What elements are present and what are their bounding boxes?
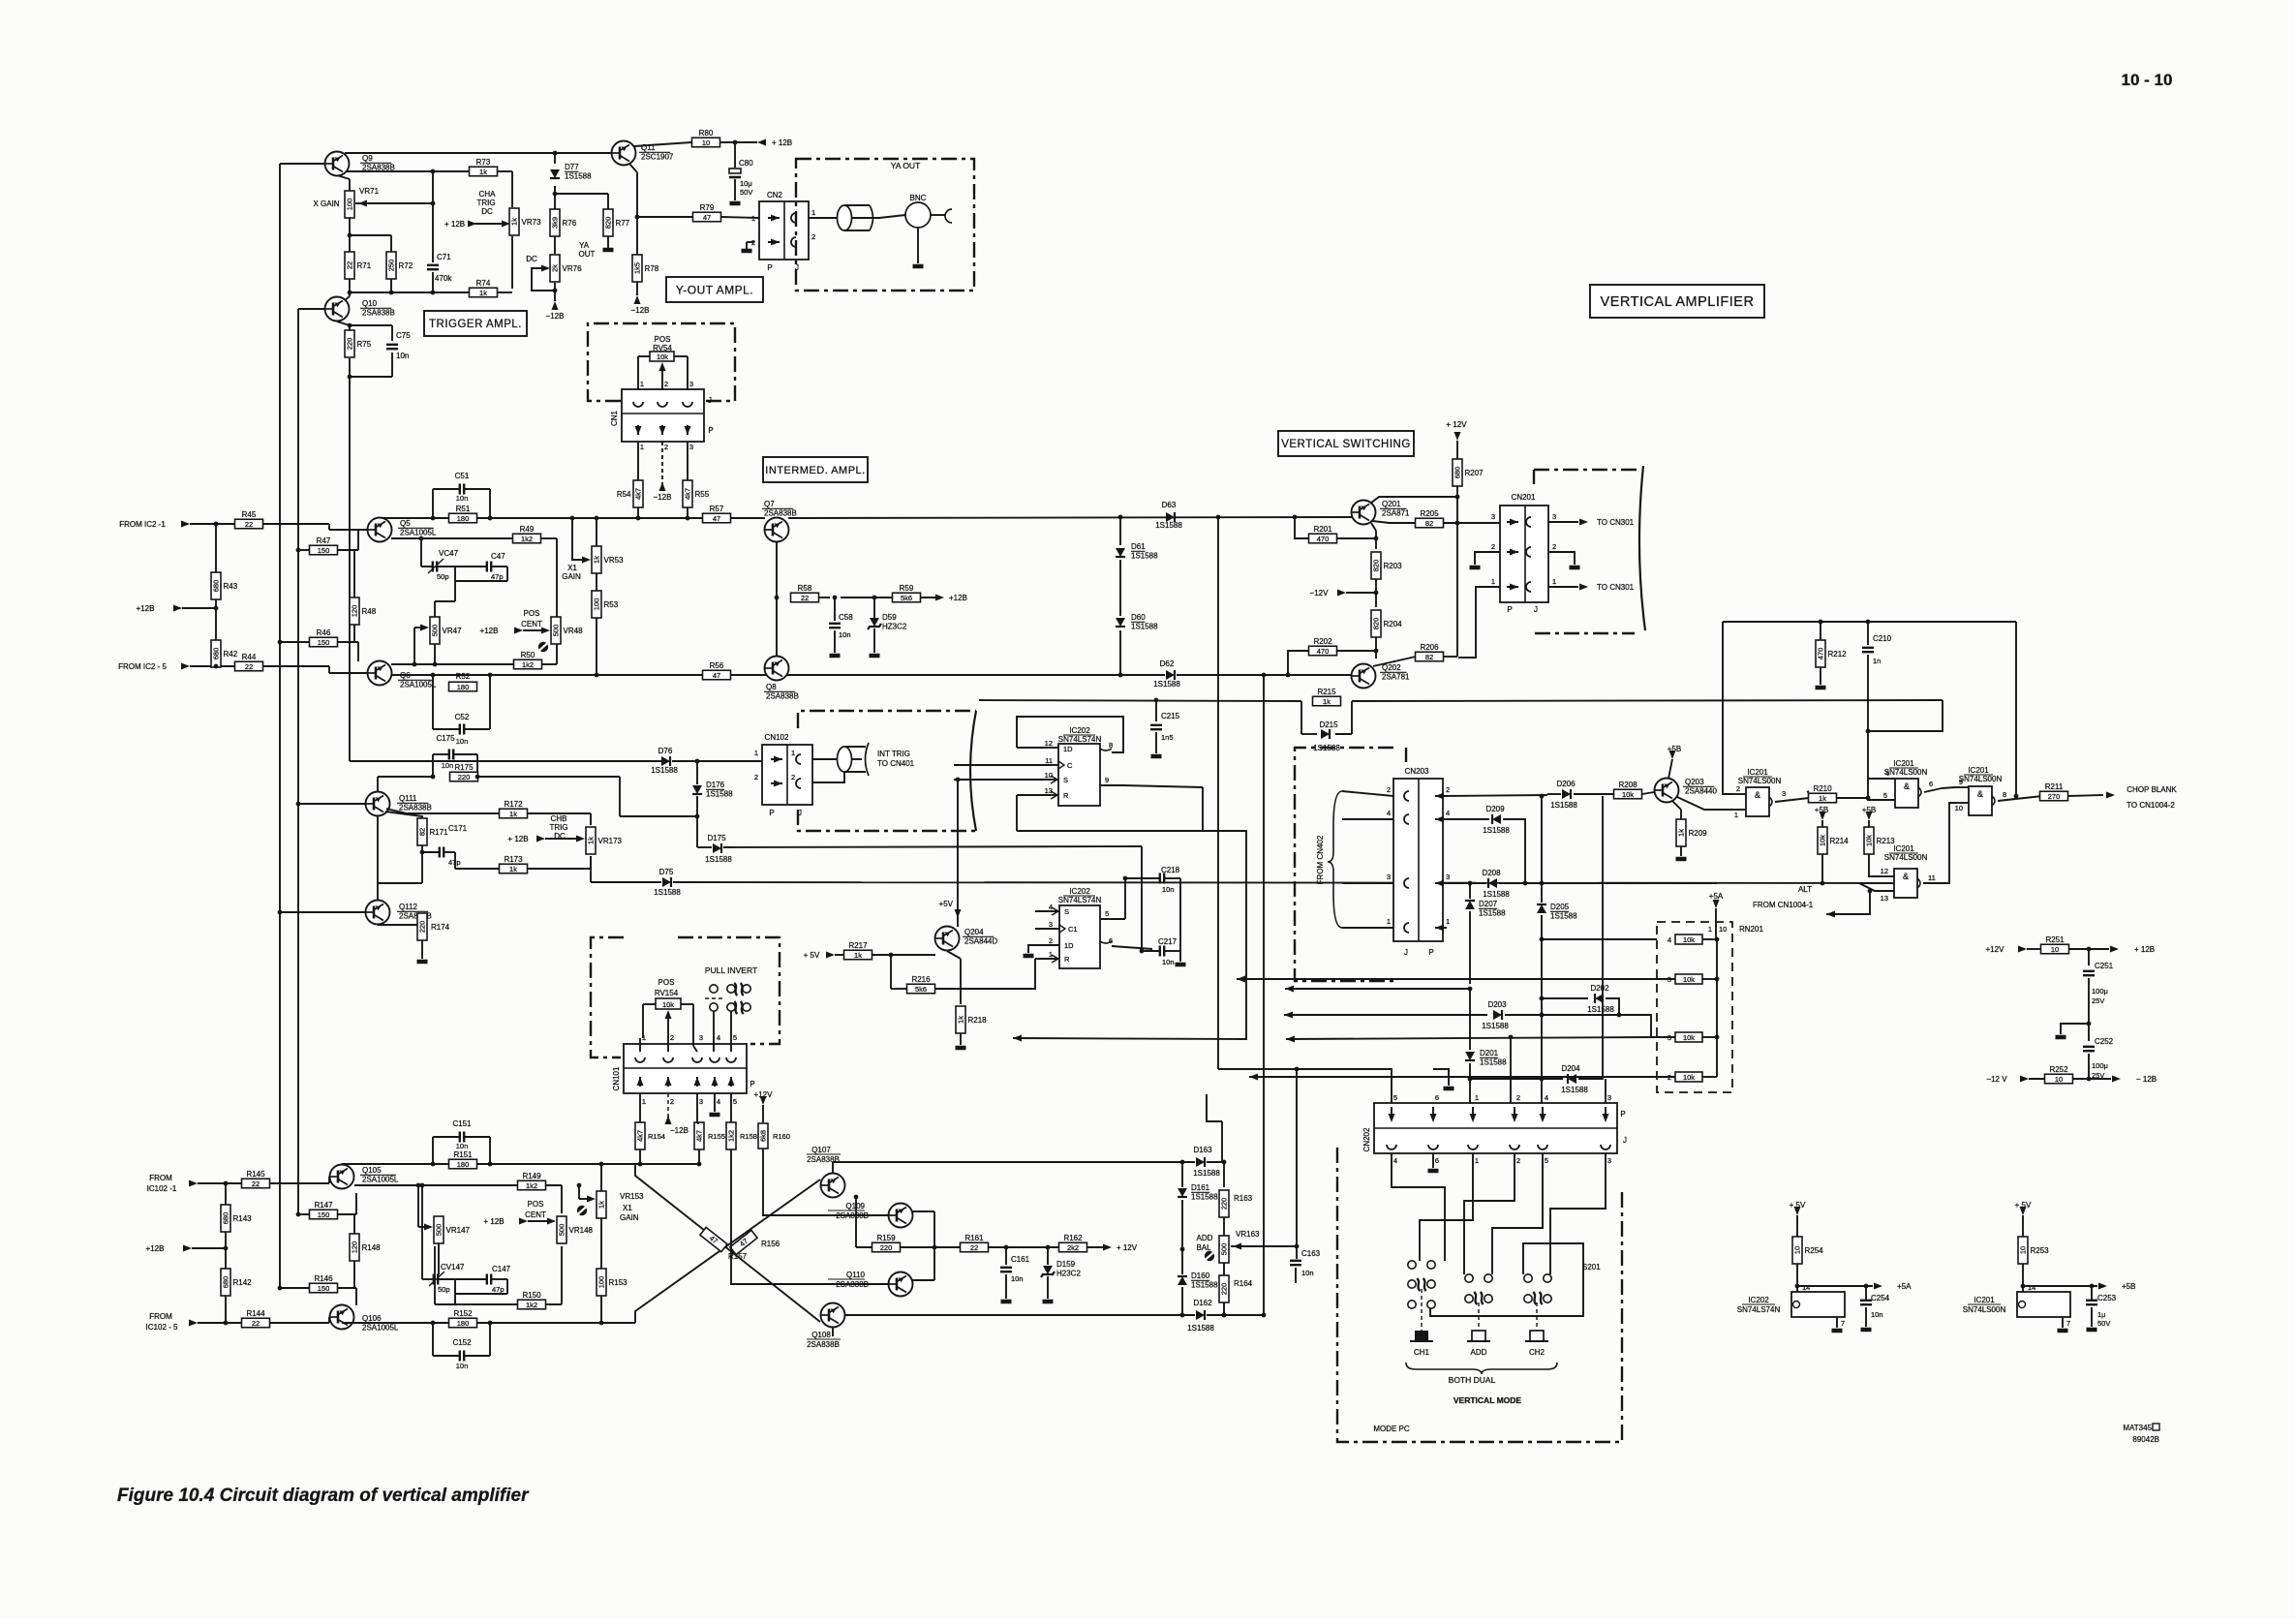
- svg-text:3k9: 3k9: [551, 217, 560, 229]
- wire R73 right to VR73: [497, 171, 512, 207]
- svg-text:82: 82: [1425, 653, 1433, 661]
- wire loop left down: [1723, 622, 1732, 794]
- svg-text:R153: R153: [609, 1278, 628, 1287]
- svg-text:C80: C80: [739, 159, 753, 168]
- label DC: [526, 255, 537, 263]
- svg-text:C254: C254: [1871, 1294, 1890, 1302]
- svg-text:C171: C171: [448, 824, 468, 833]
- svg-text:1S1588: 1S1588: [1153, 680, 1180, 689]
- resistor R142: [221, 1269, 252, 1296]
- resistor R154b: [635, 1122, 665, 1149]
- vertical CHA trig to D76: [349, 377, 351, 761]
- svg-text:22: 22: [252, 1319, 260, 1328]
- svg-text:10k: 10k: [1819, 835, 1827, 846]
- svg-text:1S1588: 1S1588: [654, 888, 681, 897]
- diode D209: [1443, 805, 1525, 883]
- dashed box YA OUT: [796, 159, 974, 291]
- capacitor C80: [729, 142, 753, 203]
- svg-text:VERTICAL MODE: VERTICAL MODE: [1453, 1395, 1522, 1405]
- svg-text:10k: 10k: [1865, 835, 1874, 846]
- pot RV154: [643, 978, 693, 1038]
- svg-text:89042B: 89042B: [2132, 1435, 2159, 1444]
- svg-text:R162: R162: [1063, 1234, 1083, 1242]
- label INT TRIG: [877, 750, 915, 768]
- svg-text:10: 10: [1955, 804, 1963, 812]
- svg-text:VR163: VR163: [1236, 1230, 1260, 1239]
- svg-text:2SA838B: 2SA838B: [764, 509, 797, 518]
- svg-text:R207: R207: [1465, 469, 1484, 477]
- resistor R216: [907, 975, 935, 994]
- wire Q9 base left: [280, 163, 325, 165]
- svg-text:FROM CN402: FROM CN402: [1316, 835, 1325, 884]
- RN201 r2: [1657, 1072, 1717, 1082]
- svg-text:R164: R164: [1234, 1279, 1253, 1288]
- vertical bus B (Q10 base down): [297, 309, 299, 1214]
- svg-text:10: 10: [1045, 771, 1053, 780]
- svg-text:CN201: CN201: [1512, 493, 1536, 502]
- svg-text:2SA838B: 2SA838B: [362, 164, 395, 172]
- resistor R144: [242, 1309, 270, 1328]
- wire D76 to CN102: [672, 760, 762, 762]
- svg-text:1k2: 1k2: [521, 535, 533, 543]
- resistor R162: [1059, 1234, 1087, 1252]
- svg-text:25V: 25V: [2092, 996, 2104, 1005]
- resistor R218: [956, 1006, 987, 1033]
- svg-text:D59: D59: [882, 613, 897, 622]
- svg-text:1k5: 1k5: [633, 262, 642, 274]
- power -12B R78: [631, 295, 650, 315]
- svg-text:10n: 10n: [396, 352, 409, 360]
- ground R212: [1816, 667, 1826, 688]
- resistor R76: [550, 209, 577, 236]
- wire R77 ground stub: [607, 236, 609, 248]
- wire CHB trig drop: [619, 777, 621, 816]
- svg-text:3: 3: [1446, 873, 1450, 881]
- svg-text:4k7: 4k7: [636, 1130, 645, 1142]
- ground R209: [1676, 846, 1687, 859]
- svg-text:100: 100: [346, 199, 354, 211]
- svg-text:C161: C161: [1011, 1255, 1030, 1264]
- diode D160: [1178, 1247, 1218, 1315]
- svg-text:+12B: +12B: [480, 627, 499, 635]
- svg-text:1k: 1k: [957, 1016, 965, 1024]
- svg-text:TO CN301: TO CN301: [1597, 518, 1635, 527]
- wire 843 line: [620, 815, 697, 817]
- svg-text:4: 4: [717, 1097, 720, 1106]
- vertical x1157 (D61/D60): [1118, 515, 1123, 678]
- svg-text:22: 22: [245, 520, 253, 529]
- svg-text:R151: R151: [453, 1150, 473, 1159]
- svg-text:2SA8440: 2SA8440: [1685, 787, 1717, 796]
- gate IC201 A: [1732, 768, 1809, 819]
- capacitor C218: [1123, 866, 1180, 894]
- resistor R251: [1986, 935, 2156, 954]
- svg-text:5: 5: [1545, 1156, 1548, 1165]
- svg-text:FROM: FROM: [149, 1174, 172, 1182]
- svg-text:CN203: CN203: [1405, 767, 1429, 776]
- svg-text:TRIG: TRIG: [549, 823, 567, 832]
- button CH2: [1525, 1331, 1548, 1357]
- resistor R206: [1416, 643, 1444, 661]
- svg-text:R59: R59: [900, 584, 914, 593]
- resistor R253: [2018, 1237, 2049, 1264]
- ground C251: [2056, 1022, 2092, 1037]
- svg-text:VR53: VR53: [604, 556, 625, 565]
- resistor R163: [1219, 1162, 1253, 1217]
- RN201 r4: [1668, 935, 1720, 944]
- wire VR173 to D75 line: [590, 856, 592, 882]
- svg-text:Y-OUT AMPL.: Y-OUT AMPL.: [676, 283, 753, 296]
- svg-text:YA: YA: [579, 241, 590, 250]
- svg-text:Q9: Q9: [362, 154, 373, 163]
- wire R158 base: [731, 1149, 889, 1284]
- wire sw route p4: [1392, 1153, 1445, 1261]
- capacitor C210: [1862, 622, 1892, 798]
- svg-text:4k7: 4k7: [695, 1130, 704, 1142]
- power +12B chb: [146, 1244, 226, 1253]
- svg-text:R174: R174: [431, 923, 450, 932]
- wire R175 line right: [477, 776, 620, 778]
- resistor network RN201 box: [1657, 922, 1732, 1092]
- wire R149 line: [354, 1183, 562, 1213]
- trimcap VC47: [421, 538, 459, 581]
- svg-text:D160: D160: [1191, 1272, 1210, 1280]
- svg-text:10k: 10k: [657, 352, 668, 361]
- svg-text:D175: D175: [707, 834, 726, 843]
- svg-text:Q110: Q110: [846, 1271, 866, 1279]
- wire CN201 pin1 out: [1548, 583, 1635, 592]
- svg-text:+ 12B: + 12B: [444, 220, 465, 229]
- svg-text:3: 3: [699, 1033, 703, 1042]
- svg-text:1S1588: 1S1588: [1480, 1058, 1507, 1067]
- wire x1179 down: [1141, 846, 1143, 951]
- svg-text:C52: C52: [455, 713, 470, 721]
- pot VR147: [416, 1183, 471, 1274]
- diode D60: [1116, 613, 1158, 631]
- resistor R55: [683, 480, 710, 507]
- wires CN101 top: [640, 1011, 731, 1052]
- svg-text:R75: R75: [357, 340, 372, 349]
- wire Q111 base: [296, 802, 365, 807]
- capacitor C215: [1150, 698, 1180, 756]
- svg-text:D75: D75: [659, 868, 674, 876]
- switch S201 ch2: [1524, 1274, 1551, 1304]
- svg-text:50p: 50p: [437, 572, 449, 581]
- capacitor C252: [2083, 1037, 2114, 1081]
- svg-text:820: 820: [604, 217, 613, 230]
- power +5A out: [1874, 1282, 1912, 1291]
- svg-text:R173: R173: [504, 855, 523, 864]
- wire R76 to VR76: [554, 236, 556, 254]
- power +12B cent chb: [483, 1217, 554, 1226]
- box TRIGGER AMPL: [424, 311, 527, 336]
- svg-text:CN202: CN202: [1362, 1127, 1371, 1151]
- resistor R148: [350, 1214, 381, 1288]
- svg-text:R51: R51: [456, 505, 471, 513]
- resistor R153: [597, 1269, 627, 1296]
- svg-text:R210: R210: [1813, 784, 1832, 793]
- wire Q109 emitter: [912, 1211, 936, 1249]
- resistor R73: [470, 158, 498, 176]
- label S201: [1582, 1263, 1601, 1272]
- svg-text:X1: X1: [567, 564, 577, 572]
- svg-text:10: 10: [1793, 1246, 1802, 1254]
- arrow wire A3 row2: [1249, 1074, 1657, 1081]
- node R73 left: [431, 169, 436, 174]
- power +5V Q204: [939, 780, 962, 927]
- wire R201 leads: [1293, 515, 1379, 541]
- svg-text:R50: R50: [521, 651, 535, 659]
- label POS CENT: [521, 609, 542, 628]
- svg-text:Q112: Q112: [399, 903, 418, 911]
- wire CN201 pin3 out: [1548, 518, 1635, 527]
- svg-text:10: 10: [2055, 1075, 2063, 1084]
- diode D77: [550, 163, 592, 181]
- svg-text:2: 2: [1552, 542, 1556, 551]
- svg-text:2: 2: [1516, 1093, 1520, 1102]
- power +12B trigger: [444, 220, 465, 229]
- svg-text:12: 12: [1881, 867, 1888, 875]
- wire R150 line: [455, 1246, 562, 1304]
- wire R155 bottom chb: [635, 1149, 701, 1166]
- svg-text:50V: 50V: [2097, 1319, 2110, 1328]
- label CHA TRIG DC: [476, 190, 496, 216]
- capacitor C51: [433, 472, 490, 518]
- diode D215 loop: [1301, 701, 1352, 734]
- svg-text:1: 1: [1387, 917, 1391, 926]
- svg-text:2: 2: [1491, 542, 1495, 551]
- button ADD: [1467, 1331, 1490, 1357]
- svg-text:+12B: +12B: [146, 1244, 165, 1253]
- svg-text:D202: D202: [1590, 984, 1609, 993]
- svg-text:500: 500: [552, 625, 561, 637]
- svg-text:2SA1005L: 2SA1005L: [362, 1176, 399, 1184]
- svg-text:R202: R202: [1313, 637, 1332, 646]
- wire R171 bottom: [421, 845, 423, 852]
- connector CN101: [612, 1033, 755, 1106]
- resistor R213: [1864, 827, 1895, 854]
- wire Q203 out: [1677, 797, 1732, 810]
- svg-text:GAIN: GAIN: [620, 1213, 639, 1222]
- svg-text:10n: 10n: [456, 737, 469, 746]
- label FROM CN402: [1316, 835, 1325, 884]
- vertical x1305 (Q202 base): [1262, 675, 1267, 1317]
- svg-text:C58: C58: [839, 613, 853, 622]
- svg-text:R44: R44: [242, 653, 257, 661]
- resistor R252: [1986, 1065, 2157, 1084]
- svg-text:C147: C147: [492, 1265, 511, 1273]
- svg-text:R163: R163: [1234, 1194, 1253, 1203]
- svg-text:3: 3: [1387, 873, 1391, 881]
- wire R53 bottom: [595, 618, 599, 677]
- connector CN202: [1362, 1093, 1627, 1165]
- svg-text:8: 8: [2003, 790, 2006, 799]
- svg-text:100: 100: [593, 598, 601, 611]
- bus B1: [342, 1162, 635, 1167]
- svg-text:D163: D163: [1193, 1146, 1212, 1154]
- svg-text:CH1: CH1: [1414, 1348, 1430, 1357]
- wire pin12: [1017, 747, 1051, 749]
- svg-text:P: P: [750, 1080, 754, 1088]
- power -12B CN1: [654, 482, 672, 502]
- label X1 GAIN: [562, 564, 581, 581]
- svg-text:TRIG: TRIG: [476, 199, 495, 207]
- resistor R254: [1792, 1237, 1823, 1264]
- capacitor C75: [386, 331, 411, 360]
- svg-text:1k: 1k: [587, 837, 596, 844]
- svg-text:150: 150: [318, 1284, 330, 1293]
- resistor R56: [703, 661, 731, 680]
- svg-text:R74: R74: [476, 279, 491, 288]
- svg-text:R76: R76: [563, 219, 577, 228]
- wire D207-D201: [1469, 989, 1471, 1050]
- coax YA: [838, 205, 880, 230]
- ground R174: [417, 940, 428, 962]
- svg-text:4: 4: [1668, 935, 1671, 944]
- resistor R147: [310, 1201, 338, 1219]
- label X GAIN: [313, 199, 339, 208]
- svg-text:4: 4: [1885, 769, 1889, 778]
- wire D75 line: [591, 882, 1894, 883]
- wire R72 bottom: [389, 278, 394, 294]
- resistor R79: [693, 203, 721, 222]
- wire sw route p5: [1492, 1153, 1543, 1274]
- svg-text:22: 22: [252, 1180, 260, 1188]
- button CH1: [1410, 1331, 1433, 1357]
- svg-text:Q107: Q107: [811, 1146, 831, 1154]
- power -12B VR76: [546, 301, 565, 321]
- wire Q10 base left: [298, 308, 325, 310]
- svg-text:R78: R78: [645, 264, 659, 273]
- svg-text:10n: 10n: [1162, 885, 1175, 894]
- svg-text:R217: R217: [848, 941, 868, 950]
- svg-text:4: 4: [1393, 1156, 1397, 1165]
- capacitor C71: [427, 253, 452, 283]
- svg-text:1k: 1k: [510, 218, 519, 226]
- box VERTICAL AMPLIFIER: [1590, 285, 1764, 318]
- resistor R171: [385, 812, 448, 845]
- svg-text:R175: R175: [454, 763, 474, 772]
- wire Q203 emitter: [1672, 801, 1681, 819]
- svg-text:VERTICAL SWITCHING: VERTICAL SWITCHING: [1281, 439, 1411, 450]
- svg-text:1k: 1k: [593, 556, 601, 564]
- svg-text:P: P: [769, 809, 774, 817]
- bus B2: [342, 1321, 635, 1326]
- resistor R209: [1676, 819, 1707, 846]
- svg-text:C163: C163: [1301, 1249, 1321, 1258]
- svg-text:500: 500: [558, 1224, 566, 1237]
- resistor R161: [961, 1234, 989, 1252]
- svg-text:C210: C210: [1873, 634, 1892, 643]
- svg-text:47: 47: [703, 213, 711, 222]
- svg-text:POS: POS: [658, 978, 675, 987]
- transistor Q110: [828, 1271, 913, 1297]
- svg-text:C217: C217: [1158, 937, 1178, 946]
- resistor R164: [1219, 1263, 1253, 1317]
- svg-text:5k6: 5k6: [915, 985, 927, 994]
- svg-text:Q7: Q7: [764, 500, 775, 508]
- svg-text:TO CN401: TO CN401: [877, 759, 915, 768]
- svg-text:R46: R46: [317, 628, 331, 637]
- svg-text:10n: 10n: [1301, 1269, 1314, 1277]
- svg-text:2: 2: [670, 1097, 674, 1106]
- wire VR76 bottom: [553, 283, 558, 301]
- capacitor C47: [435, 552, 507, 617]
- svg-text:R150: R150: [522, 1291, 541, 1300]
- svg-text:VR173: VR173: [598, 837, 623, 845]
- IC IC202 A: [1045, 726, 1123, 806]
- svg-text:R214: R214: [1830, 837, 1850, 845]
- svg-text:500: 500: [1220, 1243, 1229, 1256]
- svg-text:4k7: 4k7: [634, 488, 643, 500]
- svg-text:2SA1005L: 2SA1005L: [400, 681, 437, 689]
- svg-text:Figure 10.4 Circuit diagram: Figure 10.4 Circuit diagram of vertical …: [117, 1486, 530, 1506]
- svg-text:1k2: 1k2: [526, 1301, 537, 1309]
- svg-text:150: 150: [318, 1210, 330, 1219]
- svg-text:10n: 10n: [1871, 1310, 1883, 1319]
- svg-text:10: 10: [1719, 925, 1727, 934]
- wire R217 to Q204: [872, 953, 935, 958]
- wire R147 link: [296, 1193, 356, 1216]
- switch pull invert: [705, 983, 750, 1014]
- svg-text:2SA871: 2SA871: [1382, 509, 1410, 518]
- wire Q204 emitter: [947, 951, 961, 1004]
- bus D162 line: [845, 1313, 1226, 1318]
- svg-text:R253: R253: [2031, 1246, 2050, 1255]
- svg-text:3: 3: [1049, 920, 1053, 929]
- svg-text:CENT: CENT: [525, 1210, 546, 1219]
- resistor R75: [345, 330, 372, 357]
- svg-text:220: 220: [1220, 1198, 1229, 1210]
- svg-text:1k2: 1k2: [522, 660, 534, 669]
- capacitor C147: [435, 1246, 511, 1304]
- resistor R72: [386, 252, 413, 279]
- svg-text:IC202: IC202: [1748, 1296, 1769, 1304]
- label PULL INVERT: [705, 965, 757, 975]
- svg-text:R161: R161: [964, 1234, 984, 1242]
- svg-text:VC47: VC47: [439, 549, 459, 558]
- gate IC201 D: [1859, 844, 1945, 903]
- wire VR53 col: [595, 516, 599, 591]
- resistor R211: [2040, 782, 2068, 801]
- svg-text:470: 470: [1317, 535, 1330, 543]
- svg-text:5: 5: [1883, 791, 1887, 800]
- wire Q10 collector top: [345, 292, 350, 300]
- RN201 r5: [1657, 974, 1719, 984]
- resistor R48: [350, 598, 377, 625]
- svg-text:180: 180: [457, 1160, 470, 1169]
- resistor R160: [758, 1123, 790, 1149]
- svg-text:TO CN301: TO CN301: [1597, 583, 1635, 592]
- svg-text:1S1588: 1S1588: [1483, 890, 1510, 899]
- resistor R146: [310, 1274, 338, 1293]
- resistor R80: [692, 129, 720, 147]
- screw VR48: [538, 642, 548, 652]
- svg-text:OUT: OUT: [579, 250, 596, 259]
- transistor Q112 emitter: [378, 913, 422, 925]
- resistor R59: [841, 584, 937, 602]
- svg-text:5: 5: [733, 1033, 737, 1042]
- svg-text:Q106: Q106: [362, 1314, 382, 1323]
- svg-text:1n: 1n: [1873, 657, 1881, 665]
- svg-text:1k: 1k: [597, 1201, 606, 1209]
- wire Q111-Q112 col: [377, 816, 379, 900]
- diode D201: [1465, 1049, 1507, 1109]
- svg-text:−12B: −12B: [631, 306, 650, 315]
- wire R76-R77 link: [555, 194, 608, 209]
- svg-text:BOTH DUAL: BOTH DUAL: [1449, 1375, 1496, 1385]
- resistor R203: [1371, 552, 1402, 579]
